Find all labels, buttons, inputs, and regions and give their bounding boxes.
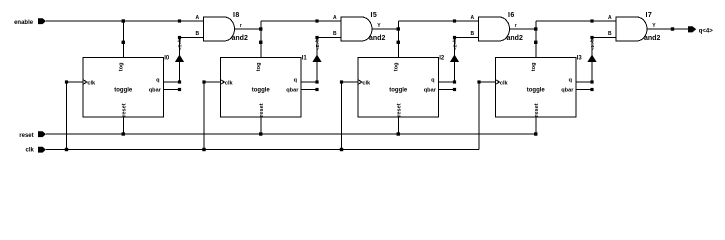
wire B stub I8 [180,37,204,39]
wire B stub I6 [455,37,479,39]
svg-text:q: q [156,77,160,83]
svg-text:A: A [608,15,612,21]
svg-text:B: B [196,31,200,37]
wire A stub I8 [180,20,204,22]
clock wedge I1 [221,80,225,85]
svg-text:clk: clk [500,80,509,86]
tap square on tog wire I2 [397,41,400,44]
wire tog vertical I3 [535,21,537,58]
svg-text:clk: clk [87,80,96,86]
q pin square I2 [453,80,456,83]
wire to A of next gate [261,20,317,22]
svg-text:clk: clk [362,80,371,86]
wire A stub I5 [317,20,341,22]
clock wedge I2 [358,80,362,85]
svg-text:toggle: toggle [389,88,408,94]
wire I5 output [372,28,398,30]
wire qbar stub I0 [164,89,180,91]
wire q stub I1 [301,81,317,83]
svg-text:and2: and2 [644,35,660,42]
qbar pin square I3 [590,88,593,91]
svg-text:qbar: qbar [424,87,437,93]
svg-text:tog: tog [531,62,537,71]
svg-text:toggle: toggle [252,88,271,94]
junction on reset rail I2 [397,132,400,135]
input pin symbol reset [38,131,46,137]
svg-text:I8: I8 [233,12,240,19]
svg-text:q: q [294,77,298,83]
svg-text:A: A [196,15,200,21]
wire tog vertical I2 [397,21,399,58]
wire q stub I0 [164,81,180,83]
svg-text:and2: and2 [369,35,385,42]
A pin square I7 [590,19,593,22]
svg-text:clk: clk [26,147,35,153]
B pin square I7 [590,36,593,39]
svg-text:clk: clk [225,80,234,86]
input pin symbol clk [38,147,46,153]
net arrow symbol stage 2 [312,55,321,63]
svg-text:B: B [608,31,612,37]
and2 gate I8 body [204,17,235,41]
wire clk horizontal I3 [479,81,496,83]
wire clk vertical I1 [203,82,205,150]
junction I6 output to tog [534,27,537,30]
svg-text:I3: I3 [577,55,583,61]
svg-text:I5: I5 [371,12,378,19]
tap square on tog wire I0 [122,41,125,44]
A pin square I6 [453,19,456,22]
svg-text:and2: and2 [507,35,523,42]
wire A stub I7 [592,20,616,22]
svg-text:reset: reset [19,133,33,139]
svg-text:and2: and2 [232,35,248,42]
svg-text:I0: I0 [164,55,170,61]
wire q to gate B stage 3 [454,38,456,83]
svg-text:reset: reset [259,103,265,117]
junction on reset rail I0 [122,132,125,135]
svg-text:q<2>: q<2> [315,39,320,50]
tap square on tog wire I3 [534,41,537,44]
clock wedge I0 [83,80,87,85]
wire I6 output [510,28,536,30]
A pin square I5 [315,19,318,22]
wire A stub I6 [455,20,479,22]
net arrow symbol stage 3 [450,55,459,63]
wire reset vertical I1 [260,117,262,134]
qbar pin square I2 [453,88,456,91]
wire reset vertical I0 [122,117,124,134]
wire qbar stub I3 [576,89,592,91]
svg-text:I2: I2 [439,55,445,61]
toggle flip-flop I0 body [83,58,164,118]
toggle flip-flop I3 body [496,58,577,118]
wire q to gate B stage 2 [316,38,318,83]
wire enable rail [46,20,180,22]
svg-text:I6: I6 [508,12,515,19]
q pin square I3 [590,80,593,83]
wire reset vertical I3 [535,117,537,134]
svg-text:I1: I1 [302,55,308,61]
clk corner square I2 [340,80,343,83]
output stub square [671,27,674,30]
net arrow symbol stage 4 [587,55,596,63]
wire clk rail [46,149,479,151]
and2 gate I6 body [479,17,510,41]
svg-text:tog: tog [118,62,124,71]
svg-text:A: A [333,15,337,21]
wire B stub I5 [317,37,341,39]
svg-text:q: q [431,77,435,83]
svg-text:toggle: toggle [527,88,546,94]
wire qbar stub I1 [301,89,317,91]
junction on clk rail I2 [340,148,343,151]
svg-text:reset: reset [121,103,127,117]
wire q to gate B stage 4 [591,38,593,83]
svg-text:reset: reset [534,103,540,117]
clk corner square I3 [477,80,480,83]
B pin square I8 [178,36,181,39]
wire to A of next gate [398,20,454,22]
wire B stub I7 [592,37,616,39]
svg-text:r: r [515,23,517,29]
svg-text:I7: I7 [646,12,653,19]
svg-text:B: B [471,31,475,37]
wire q to gate B stage 1 [179,38,181,83]
wire I7 output to pin q<4> [647,28,688,30]
svg-text:qbar: qbar [286,87,299,93]
A pin square I8 [178,19,181,22]
wire I8 output [235,28,261,30]
svg-text:B: B [333,31,337,37]
wire qbar stub I2 [439,89,455,91]
wire clk vertical I2 [341,82,343,150]
svg-text:toggle: toggle [114,88,133,94]
wire clk horizontal I2 [342,81,359,83]
q pin square I1 [315,80,318,83]
svg-text:q<3>: q<3> [453,39,458,50]
wire clk vertical I0 [66,82,68,150]
svg-text:qbar: qbar [561,87,574,93]
svg-text:tog: tog [256,62,262,71]
tap square on tog wire I1 [259,41,262,44]
toggle flip-flop I1 body [221,58,302,118]
toggle flip-flop I2 body [358,58,439,118]
svg-text:r: r [240,23,242,29]
svg-text:enable: enable [14,20,34,26]
and2 gate I7 body [616,17,647,41]
net arrow symbol stage 1 [175,55,184,63]
wire q stub I2 [439,81,455,83]
svg-text:q<4>: q<4> [699,28,714,34]
qbar pin square I1 [315,88,318,91]
qbar pin square I0 [178,88,181,91]
junction enable to tog I0 [122,19,125,22]
svg-text:q: q [569,77,573,83]
wire reset rail [46,133,536,135]
svg-text:q<1>: q<1> [178,39,183,50]
svg-text:q<4>: q<4> [590,39,595,50]
B pin square I5 [315,36,318,39]
wire clk horizontal I0 [67,81,84,83]
clk corner square I1 [202,80,205,83]
junction I5 output to tog [397,27,400,30]
wire tog vertical I1 [260,21,262,58]
svg-text:reset: reset [396,103,402,117]
q pin square I0 [178,80,181,83]
junction I8 output to tog [259,27,262,30]
and2 gate I5 body [341,17,372,41]
output pin symbol q<4> [688,26,696,32]
wire tog vertical I0 [122,21,124,58]
reset rail end square [534,132,537,135]
wire reset vertical I2 [397,117,399,134]
junction on clk rail I1 [202,148,205,151]
svg-text:qbar: qbar [149,87,162,93]
junction on reset rail I1 [259,132,262,135]
junction on clk rail I0 [65,148,68,151]
clock wedge I3 [496,80,500,85]
wire to A of next gate [536,20,592,22]
wire clk horizontal I1 [204,81,221,83]
wire q stub I3 [576,81,592,83]
svg-text:tog: tog [393,62,399,71]
wire clk vertical I3 [478,82,480,150]
svg-text:A: A [471,15,475,21]
B pin square I6 [453,36,456,39]
input pin symbol enable [38,18,46,24]
clk corner square I0 [65,80,68,83]
